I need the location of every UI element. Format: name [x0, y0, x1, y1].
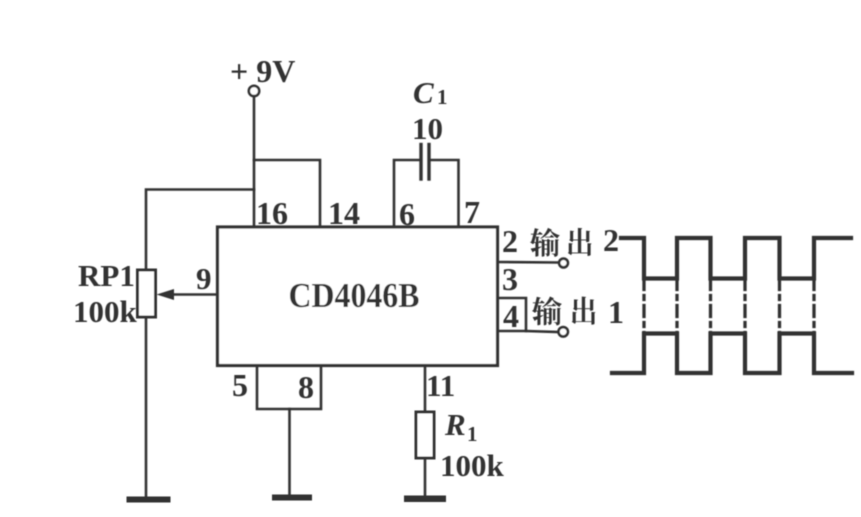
power +9V terminal	[230, 53, 295, 96]
svg-text:100k: 100k	[73, 294, 138, 329]
wire branch left to RP1	[146, 190, 254, 498]
svg-text:100k: 100k	[440, 448, 505, 483]
label C1	[413, 75, 448, 110]
wire +9V down to pin 16	[253, 96, 256, 227]
svg-text:RP1: RP1	[78, 258, 135, 293]
wire R1 to ground	[424, 458, 427, 497]
svg-text:CD4046B: CD4046B	[289, 276, 420, 315]
wire branch to pin 14	[254, 160, 320, 227]
wire pin 6 up to C1	[394, 160, 420, 227]
node output 1 terminal	[559, 327, 568, 336]
wire junction 5-8 to ground	[288, 409, 291, 497]
wire pin 4 to output 1 terminal	[526, 331, 558, 332]
svg-text:4: 4	[503, 298, 519, 334]
label shuchu (output 2) char 输	[530, 228, 560, 257]
resistor R1	[416, 412, 434, 458]
ground (R1 bottom)	[404, 496, 446, 503]
svg-text:2: 2	[603, 222, 619, 258]
waveform trace output 2	[621, 238, 851, 279]
wire pin 9 with wiper arrow	[157, 289, 218, 300]
svg-text:3: 3	[502, 261, 518, 297]
svg-text:+ 9V: + 9V	[230, 53, 295, 89]
node output 2 terminal	[559, 259, 568, 268]
capacitor C1	[421, 145, 429, 180]
svg-text:1: 1	[437, 85, 448, 109]
svg-text:2: 2	[502, 223, 518, 259]
IC U1 CD4046B	[218, 227, 498, 366]
label shuchu (output 2) char 出	[568, 228, 592, 256]
svg-text:1: 1	[608, 294, 624, 330]
ground (pins 5,8)	[272, 495, 312, 501]
svg-text:14: 14	[328, 195, 360, 231]
ground (RP1 bottom)	[127, 497, 171, 503]
label shuchu (output 1) char 输	[532, 296, 562, 325]
svg-text:R: R	[444, 407, 466, 442]
svg-text:11: 11	[426, 368, 455, 403]
wire pins 5 and 8 joined	[257, 366, 321, 410]
wire pin 2 to output 2 terminal	[498, 261, 558, 264]
waveform phase alignment dash-dot lines	[644, 279, 814, 334]
svg-text:8: 8	[298, 369, 314, 405]
wire pin 11 to R1	[424, 366, 427, 413]
svg-text:9: 9	[196, 261, 212, 296]
svg-text:5: 5	[232, 367, 248, 403]
label R1	[444, 407, 478, 446]
svg-text:10: 10	[412, 111, 443, 146]
svg-text:7: 7	[464, 194, 480, 230]
wire C1 to pin 7	[431, 160, 459, 227]
svg-text:6: 6	[399, 196, 415, 232]
waveform trace output 1	[612, 334, 852, 374]
label shuchu (output 1) char 出	[572, 297, 596, 325]
svg-text:1: 1	[467, 422, 478, 446]
wire pin 3 to pin 4	[498, 298, 527, 331]
svg-text:C: C	[413, 75, 434, 110]
svg-text:16: 16	[256, 195, 288, 231]
potentiometer RP1	[138, 270, 156, 317]
